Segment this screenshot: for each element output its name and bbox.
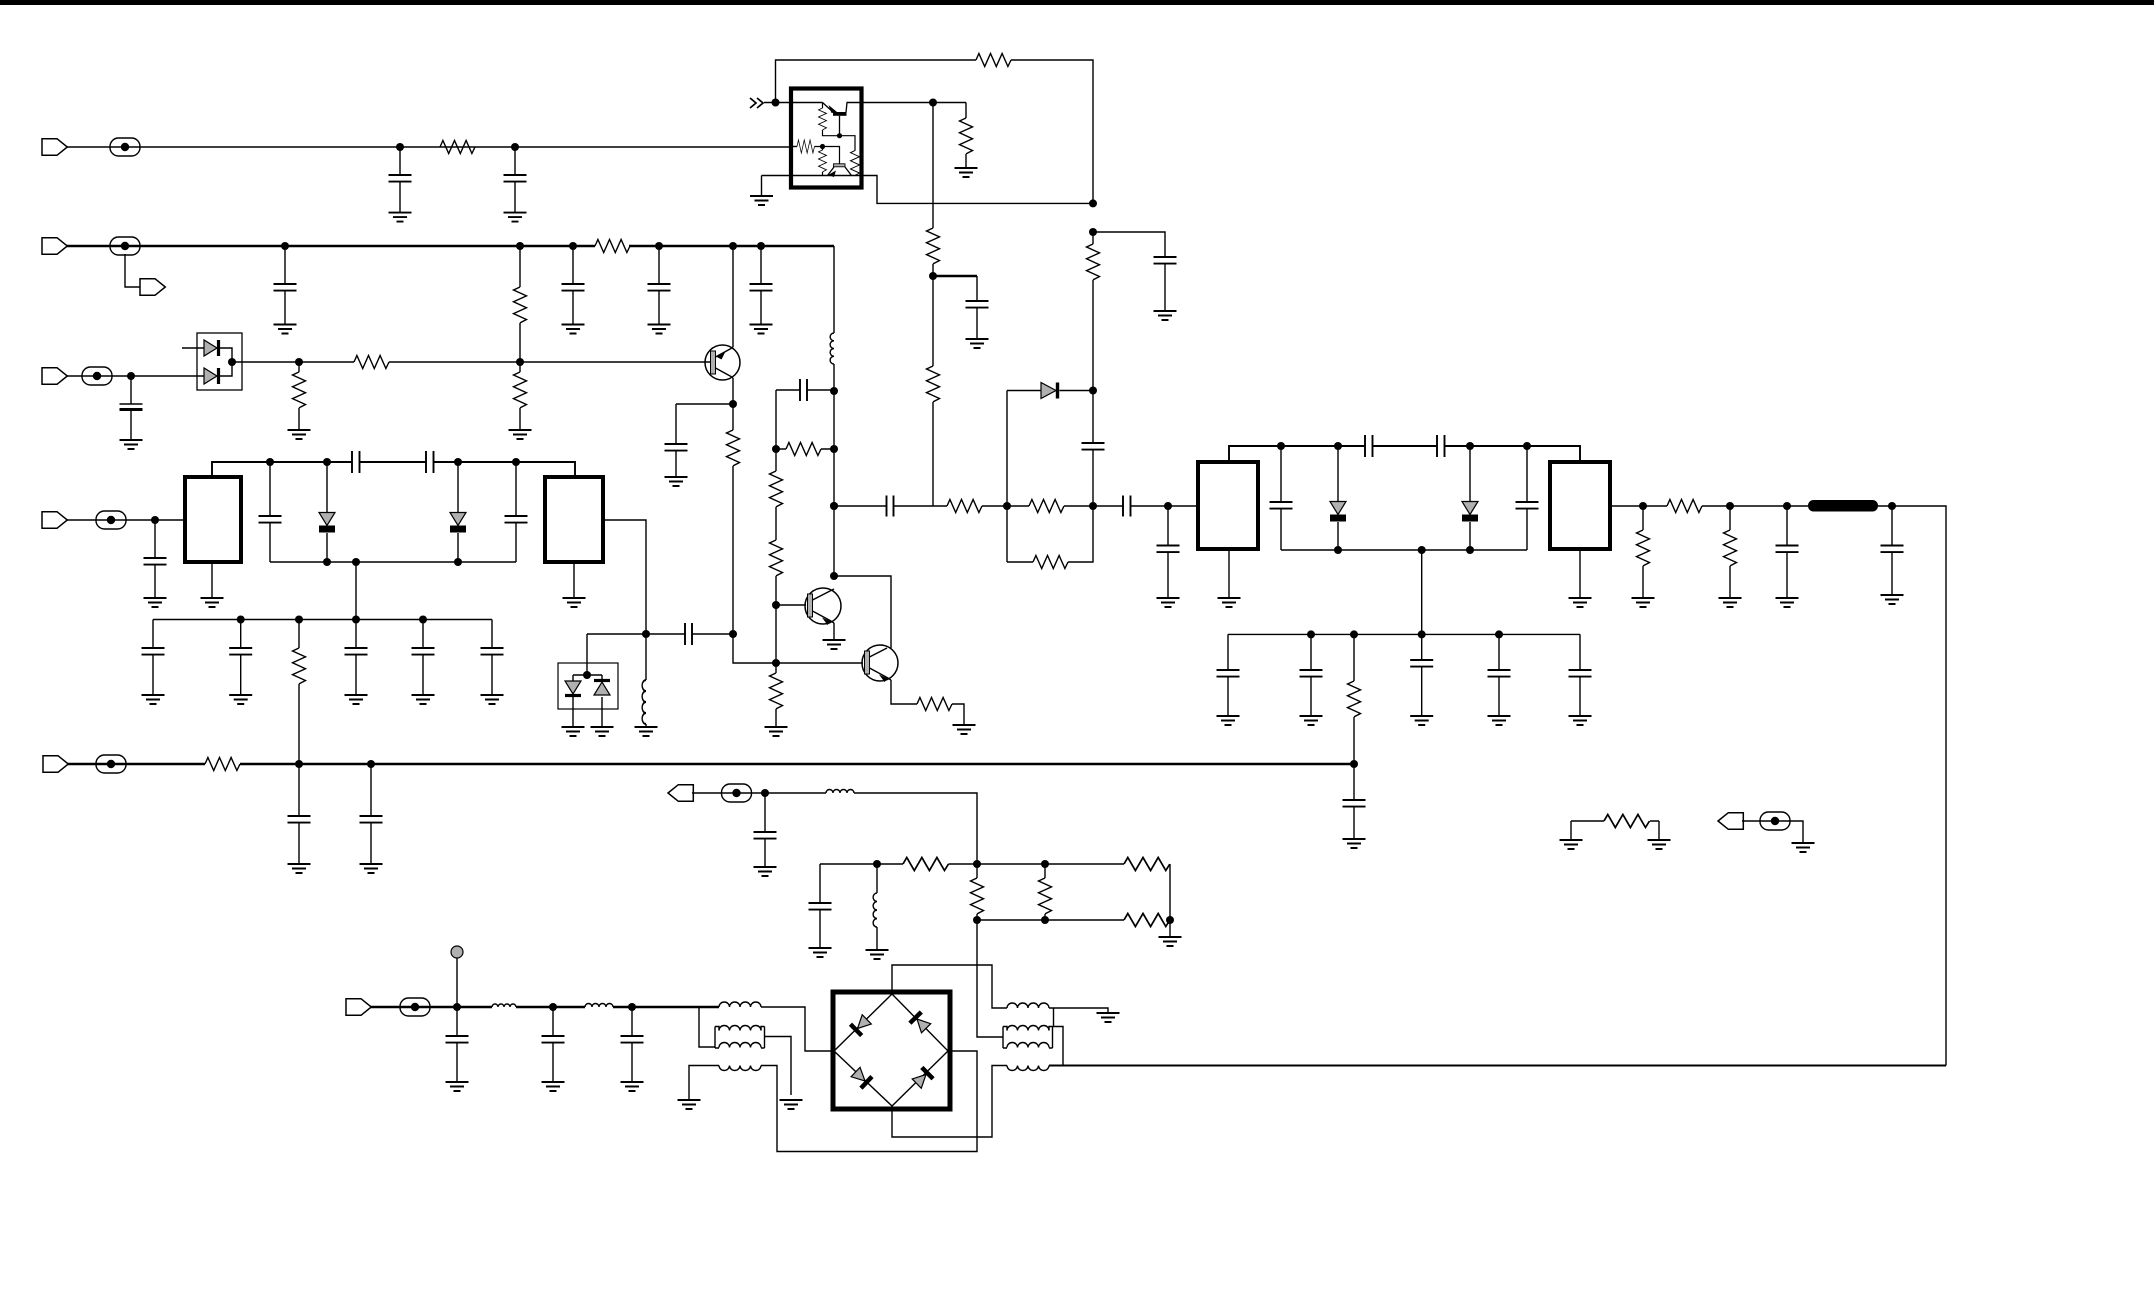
resistor R33 (shunt) — [1044, 864, 1046, 920]
ground — [144, 598, 167, 607]
wire collector bus — [834, 576, 891, 648]
wire filterL bottom — [270, 561, 516, 563]
transistor Q4 (inside U1) — [823, 103, 848, 136]
diode D2 — [204, 368, 217, 384]
test point TP7 — [722, 784, 752, 802]
wire — [360, 461, 427, 463]
module box U1 — [791, 89, 862, 188]
inductor L3 — [492, 1004, 516, 1007]
wire stub to aux connector — [125, 254, 140, 287]
wire row1 b — [66, 146, 790, 148]
node fbot-c — [1466, 546, 1474, 554]
wire U1 emitter rail — [762, 176, 1094, 204]
wire bridge top corner loop — [892, 965, 1007, 1008]
node x833-506 — [830, 502, 838, 510]
capacitor C12 (series) — [887, 496, 894, 517]
capacitor C33 — [515, 462, 517, 562]
wire row4 main — [67, 763, 1354, 765]
capacitor C10 — [1154, 257, 1177, 264]
ground — [120, 440, 143, 449]
inductor L6 — [876, 864, 878, 950]
wire row3 out — [232, 361, 354, 363]
node out-a — [1639, 502, 1647, 510]
node rail619-c — [352, 616, 360, 624]
wire to bridge left — [761, 1007, 834, 1051]
node rail446-c — [1466, 442, 1474, 450]
ground — [1881, 595, 1904, 604]
node rail446-d — [1523, 442, 1531, 450]
wire FL4 ground lead — [1579, 549, 1581, 598]
inductor L5 — [826, 790, 854, 794]
capacitor C42 — [552, 1007, 554, 1082]
ground — [1792, 843, 1815, 852]
capacitor C34 — [152, 620, 154, 696]
input chevron — [750, 98, 763, 108]
node amp input — [772, 99, 780, 107]
wire — [833, 364, 835, 576]
node row1-C1 — [396, 143, 404, 151]
wire — [1064, 505, 1123, 507]
ground — [809, 948, 832, 957]
wire to ground — [1169, 920, 1171, 937]
inductor L1 — [645, 634, 647, 727]
ground — [1300, 716, 1323, 725]
node row4-end — [1350, 760, 1358, 768]
diode D7 — [1469, 446, 1471, 550]
wire probe — [456, 958, 458, 1007]
node net864-a — [873, 860, 881, 868]
ground — [412, 695, 435, 704]
connector J5 — [42, 512, 67, 529]
connector J6 — [346, 999, 371, 1016]
node rail446-b — [1334, 442, 1342, 450]
ground — [953, 725, 976, 734]
resistor R28 — [775, 449, 777, 471]
ground — [765, 727, 788, 736]
node net920-c — [1166, 916, 1174, 924]
node Q5 base link — [820, 144, 825, 149]
capacitor C20 — [1891, 506, 1893, 595]
ground — [678, 1100, 701, 1109]
ground — [1648, 840, 1671, 849]
node row2-C6 — [757, 242, 765, 250]
capacitor C19 — [1786, 506, 1788, 598]
node rf-a — [453, 1003, 461, 1011]
wire to ground — [1742, 821, 1803, 843]
diode D13 (top-right) — [910, 1012, 932, 1034]
resistor R7 (Q1 collector chain) — [732, 404, 734, 634]
capacitor C14 — [1167, 506, 1169, 598]
test point TP6 — [400, 998, 430, 1016]
resistor R31 (series 864) — [903, 858, 949, 871]
wire feedback right — [1011, 60, 1093, 203]
node Q4 emitter — [837, 133, 842, 138]
node x834-391 — [830, 387, 838, 395]
node x776-663 — [772, 659, 780, 667]
wire to bypass C9 — [933, 275, 977, 277]
capacitor C41 — [456, 1007, 458, 1082]
capacitor C35 — [240, 620, 242, 696]
ground — [621, 1082, 644, 1091]
wire to C10 — [1093, 232, 1165, 257]
ground — [1157, 598, 1180, 607]
ground — [1154, 311, 1177, 320]
ground — [966, 339, 989, 348]
diode D11 — [594, 682, 610, 695]
ground — [562, 325, 585, 334]
ground — [754, 867, 777, 876]
wire — [692, 792, 826, 794]
capacitor C39 (series) — [685, 623, 692, 645]
wire LO down — [854, 793, 977, 864]
node rail634-b — [1350, 630, 1358, 638]
capacitor C29 — [154, 520, 156, 598]
inductor T1 primary top — [719, 1002, 761, 1007]
wire — [370, 1006, 492, 1008]
diode D12 (top-left) — [850, 1014, 872, 1036]
connector J3 — [42, 368, 67, 385]
resistor R14 — [927, 228, 940, 264]
capacitor C30 (series) — [352, 451, 360, 473]
ground — [288, 430, 311, 439]
resistor R34 (series 864 right) — [1124, 858, 1170, 871]
resistor R26 — [775, 663, 777, 727]
capacitor C21 — [1227, 634, 1229, 716]
wire rail 634 — [1228, 633, 1580, 635]
resistor R27 (link) — [776, 448, 834, 450]
node rail462-a — [266, 458, 274, 466]
node rail462-c — [454, 458, 462, 466]
capacitor C9 — [976, 276, 978, 339]
node row3-R4 — [295, 358, 303, 366]
wire T1 feed — [699, 1007, 715, 1047]
wire to diode pack — [66, 375, 204, 377]
node filterR input — [1164, 502, 1172, 510]
capacitor C7 — [130, 376, 132, 440]
wire — [932, 264, 934, 366]
node filterL input — [151, 516, 159, 524]
ground — [542, 1082, 565, 1091]
node net920-b — [1041, 916, 1049, 924]
resistor R21 (series) — [1667, 500, 1702, 513]
resistor R12 (inside U1) — [851, 151, 860, 176]
ground — [1218, 598, 1241, 607]
ground — [274, 325, 297, 334]
ground — [481, 695, 504, 704]
node x834-506 — [830, 502, 838, 510]
wire R9 to Q4 emitter rail — [823, 130, 856, 151]
node x646-634 — [642, 630, 650, 638]
wire diode pack inner — [220, 348, 232, 376]
node row2-C4 — [569, 242, 577, 250]
ground — [201, 598, 224, 607]
connector J2 — [42, 238, 67, 255]
resistor R19 (lower loop) — [1007, 506, 1093, 562]
ground — [750, 196, 773, 205]
wire Q3 emitter — [891, 680, 917, 704]
test point TP2 — [110, 237, 140, 255]
ground — [635, 727, 658, 736]
capacitor C18 — [1526, 446, 1528, 550]
test point TP3 — [82, 367, 112, 385]
resistor R24 — [205, 758, 240, 771]
test point TP5 — [96, 511, 126, 529]
capacitor C32 — [269, 462, 271, 562]
node rf-c — [628, 1003, 636, 1011]
ground — [1343, 839, 1366, 848]
resistor R4 — [298, 362, 300, 430]
ground — [1632, 598, 1655, 607]
node rail619-a — [237, 616, 245, 624]
diode D9 — [457, 462, 459, 562]
resistor R17 — [947, 500, 982, 513]
resistor R29 — [770, 540, 783, 576]
wire — [1092, 280, 1094, 443]
wire — [516, 1006, 585, 1008]
node fbot-a — [1334, 546, 1342, 554]
resistor R25 (to row4) — [298, 620, 300, 765]
resistor R32 (shunt) — [976, 864, 978, 920]
wire feedback up — [776, 60, 977, 103]
resistor R30 — [917, 698, 952, 711]
wire — [1702, 505, 1808, 507]
capacitor C23 — [1421, 634, 1423, 716]
inductor L4 — [585, 1004, 613, 1008]
node out-d — [1888, 502, 1896, 510]
node flbot-b — [352, 558, 360, 566]
ground — [345, 695, 368, 704]
wire D10 lead — [572, 697, 574, 727]
node Q1 collector — [729, 400, 737, 408]
wire IF output line — [1049, 1065, 1946, 1067]
resistor R2 (row2 to row3) — [519, 246, 521, 362]
wire link to lower coupled winding — [1053, 1008, 1055, 1027]
ground — [1569, 716, 1592, 725]
wire — [952, 704, 964, 725]
node row3-x520 — [516, 358, 524, 366]
ground — [648, 325, 671, 334]
transformer T2 coupled windings — [1003, 1026, 1053, 1049]
capacitor C36 — [355, 620, 357, 696]
node x733-634 — [729, 630, 737, 638]
capacitor C2 — [514, 147, 516, 213]
wire — [1373, 445, 1438, 447]
node rail462-d — [512, 458, 520, 466]
connector J8 (left pointing) — [1718, 813, 1743, 830]
ground — [360, 864, 383, 873]
node rail634-d — [1495, 630, 1503, 638]
capacitor C6 — [760, 246, 762, 325]
ground — [446, 1082, 469, 1091]
top border bar — [0, 0, 2154, 5]
ground — [866, 950, 889, 959]
wire net920 — [977, 919, 1124, 921]
node Q2 collector — [830, 572, 838, 580]
wire row1 into U1 — [791, 146, 797, 148]
ground — [823, 640, 846, 649]
wire to Q1 emitter — [732, 246, 734, 347]
ground — [1159, 937, 1182, 946]
node x1007-506 — [1003, 502, 1011, 510]
resistor R20 — [1642, 506, 1644, 598]
wire — [834, 505, 887, 507]
wire U1 ground left — [761, 176, 763, 197]
node out-b — [1726, 502, 1734, 510]
node U3 top — [583, 671, 591, 679]
wire — [1131, 505, 1199, 507]
ground — [509, 430, 532, 439]
node row4-b — [367, 760, 375, 768]
wire rail 619 — [153, 619, 492, 621]
diode pack U3 box — [558, 663, 618, 709]
wire FL3 top — [1229, 446, 1365, 462]
node x1093 top — [1089, 199, 1097, 207]
transistor Q2 — [805, 588, 841, 625]
resistor R5 (series row3) — [354, 356, 389, 369]
resistor R22 — [1729, 506, 1731, 598]
transistor Q3 — [862, 645, 898, 682]
resistor R10 (inside U1) — [797, 140, 815, 153]
capacitor C27 — [370, 764, 372, 864]
node row3-C7 — [127, 372, 135, 380]
inductor L2 — [833, 331, 835, 333]
capacitor C16 (series) — [1437, 435, 1445, 457]
wire U3 inner — [573, 675, 602, 681]
capacitor C24 — [1498, 634, 1500, 716]
resistor R9 (inside U1) — [822, 103, 824, 109]
node net920-a — [973, 916, 981, 924]
wire center tap — [355, 562, 357, 620]
wire amp input — [764, 102, 823, 104]
wire row2 main — [66, 245, 834, 247]
ground — [563, 598, 586, 607]
resistor R3 (series row2) — [595, 240, 630, 253]
wire to bypass cap — [676, 403, 733, 405]
filter box FL1 — [185, 477, 241, 562]
node out-c — [1783, 502, 1791, 510]
filter box FL2 — [545, 477, 603, 562]
ground — [229, 695, 252, 704]
wire T2 upper winding out — [1053, 1027, 1064, 1066]
node x1093-506 — [1089, 502, 1097, 510]
filter box FL3 — [1198, 462, 1258, 549]
inductor T2 top winding — [1007, 1003, 1049, 1008]
node diode D5 — [1089, 387, 1097, 395]
wire Q2 emitter to ground — [833, 623, 835, 640]
resistor R13 (output shunt) — [965, 103, 967, 169]
node x1093 c10 — [1089, 228, 1097, 236]
resistor R1 — [440, 141, 475, 154]
bridge diamond — [834, 994, 948, 1106]
diode pack U2 box — [197, 333, 242, 390]
wire — [775, 576, 777, 663]
wire center tap — [1421, 550, 1423, 634]
node x933 mid — [929, 272, 937, 280]
wire — [894, 505, 948, 507]
capacitor C3 — [284, 246, 286, 325]
resistor R15 — [927, 366, 940, 402]
wire — [434, 462, 576, 477]
wire row3 to Q1 — [389, 361, 710, 363]
capacitor C45 — [819, 864, 821, 948]
capacitor C38 — [491, 620, 493, 696]
wire x933 down — [932, 103, 934, 229]
wire net864 — [820, 864, 1170, 920]
resistor R16 — [1092, 232, 1094, 244]
node flbot-a — [323, 558, 331, 566]
wire x733 to Q3 base row — [733, 634, 863, 663]
stub wire upper diode — [182, 347, 204, 349]
resistor R18 — [1029, 500, 1064, 513]
wire filter bottom — [1281, 549, 1527, 551]
wire — [1445, 446, 1581, 462]
capacitor C5 — [658, 246, 660, 325]
ground — [288, 864, 311, 873]
probe pad P1 — [451, 946, 463, 958]
capacitor C28 — [1353, 764, 1355, 839]
capacitor C17 — [1280, 446, 1282, 550]
bridge box BR1 — [833, 992, 950, 1109]
node rail619-d — [419, 616, 427, 624]
ground — [1217, 716, 1240, 725]
diode D10 — [565, 681, 581, 694]
node row2-R — [516, 242, 524, 250]
resistor R23 (to row4) — [1353, 634, 1355, 764]
transformer T1 coupled windings — [715, 1026, 765, 1049]
capacitor C25 — [1579, 634, 1581, 716]
diode D8 — [326, 462, 328, 562]
capacitor C26 — [298, 764, 300, 864]
connector J2b — [140, 279, 165, 296]
wire FL1 top rail — [212, 462, 352, 477]
ground — [780, 1100, 803, 1109]
capacitor C44 — [764, 793, 766, 867]
ground — [1488, 716, 1511, 725]
node x776-449 — [772, 445, 780, 453]
capacitor C22 — [1310, 634, 1312, 716]
wire row2 end down — [833, 246, 835, 331]
ground — [1776, 598, 1799, 607]
resistor R36 (between grounds) — [1571, 821, 1659, 840]
node rail462-b — [323, 458, 331, 466]
connector J4 — [43, 756, 68, 773]
resistor R35 (series 920) — [1124, 914, 1170, 927]
wire bridge bottom corner loop — [892, 1066, 1007, 1138]
wire bottom right to bridge right corner — [761, 1051, 977, 1152]
capacitor C40 (series link) — [776, 390, 834, 449]
wire D11 lead — [601, 697, 603, 727]
node rf-b — [549, 1003, 557, 1011]
resistor R8 (feedback) — [976, 54, 1011, 67]
ground — [562, 727, 585, 736]
capacitor C15 (series) — [1365, 435, 1373, 457]
ground — [389, 213, 412, 222]
inductor T1 bottom winding — [719, 1066, 761, 1071]
capacitor C1 — [399, 147, 401, 213]
ground — [504, 213, 527, 222]
wire FL4 out — [1610, 505, 1667, 507]
node diode out — [228, 358, 236, 366]
wire — [982, 505, 1029, 507]
connector J7 (LO, left pointing) — [668, 785, 693, 802]
node rail634-c — [1418, 630, 1426, 638]
test point TP4 — [96, 755, 126, 773]
capacitor C11 — [1082, 443, 1105, 450]
test point TP1 — [110, 138, 140, 156]
diode D1 — [204, 340, 217, 356]
node x776-605 — [772, 601, 780, 609]
node fbot-b — [1418, 546, 1426, 554]
